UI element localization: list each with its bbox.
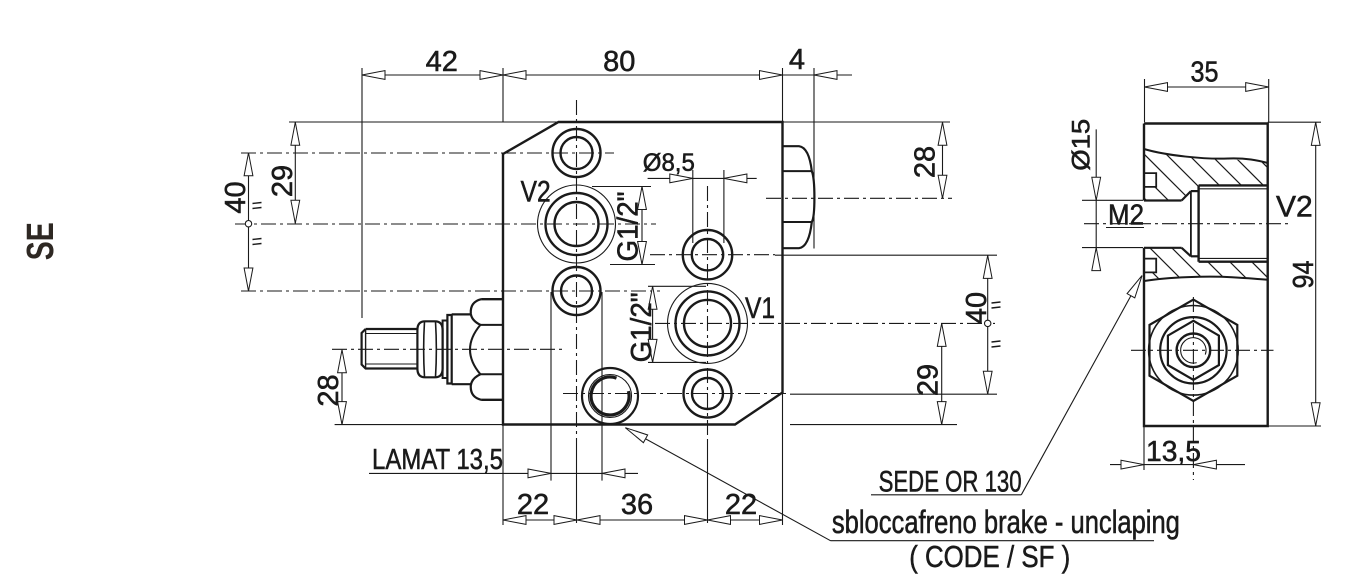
dim text 4: [789, 44, 805, 76]
bore centerline (y=223.7): [1084, 223, 1290, 225]
extension line x=782.5 bottom: [782, 393, 784, 526]
symmetry node circle right: [985, 320, 991, 326]
dim text 36: [621, 489, 653, 521]
dim text 40 left: [220, 181, 252, 213]
label D8,5: [643, 149, 695, 177]
side view block outline: [1144, 124, 1268, 427]
text sbloccafreno brake - unclaping: [832, 504, 1180, 540]
dim text 22 left: [517, 489, 549, 521]
label M2: [1106, 200, 1144, 232]
svg-text:29: 29: [913, 364, 945, 396]
svg-text:22: 22: [517, 489, 549, 521]
hex plug front view: [1149, 300, 1239, 401]
leader line to O-ring hole (sbloccafreno): [623, 424, 1154, 541]
dim 40 left arrows: [244, 153, 253, 291]
svg-text:42: 42: [426, 46, 458, 78]
label G1/2 V2: [613, 192, 645, 262]
arrows 35: [1145, 83, 1269, 92]
dim line 94: [1315, 122, 1317, 425]
dim text 40 right: [961, 292, 993, 324]
dim 28 right line: [942, 122, 944, 198]
G1/2 V2 arrows: [638, 187, 647, 265]
dim text 28 right: [910, 146, 942, 178]
dim text 80: [603, 46, 635, 78]
svg-text:28: 28: [910, 146, 942, 178]
thread section plug V2: [1199, 185, 1268, 261]
G1/2 V2 dim line: [641, 187, 643, 265]
centerline V1 column (x=707.5): [707, 186, 709, 523]
svg-text:LAMAT 13,5: LAMAT 13,5: [372, 444, 503, 476]
extension line x=503 bottom: [502, 425, 504, 525]
extension line block bottom extended right (y=424.6): [790, 424, 957, 426]
D8.5 extension lines: [693, 170, 724, 243]
spot-faced hole below V2 (c 576.5,291): [553, 267, 601, 315]
label D15: [1068, 119, 1096, 171]
hatching upper section: [980, 100, 1366, 310]
svg-text:V1: V1: [745, 292, 775, 325]
leader line SEDE OR 130: [871, 273, 1146, 494]
centerline bottom hole row (y=393.5): [563, 393, 997, 396]
arrows 13,5: [1121, 460, 1216, 469]
svg-text:M2: M2: [1108, 200, 1144, 232]
main block outline (front view): [503, 122, 783, 425]
equality marks left: [253, 203, 262, 245]
dim 28 right arrows: [938, 122, 947, 198]
text ( CODE / SF ): [909, 539, 1070, 574]
label G1/2 V1: [626, 292, 658, 362]
small hex of fitting: [417, 321, 442, 377]
drawing label SE: [20, 222, 62, 260]
svg-text:G1/2": G1/2": [626, 292, 658, 362]
svg-text:22: 22: [725, 489, 757, 521]
large hex of fitting (against block face): [452, 299, 503, 400]
svg-text:94: 94: [1288, 261, 1320, 289]
dim 29 right arrows: [937, 323, 946, 424]
dim 29 left line: [294, 122, 296, 223]
label V2 side view: [1276, 191, 1313, 224]
centerline V2 row (y=224): [235, 223, 656, 225]
D8.5 dim line: [648, 177, 757, 179]
dim text 29 left: [267, 165, 299, 197]
dim 40 right line: [987, 255, 989, 394]
extension lines D15: [1082, 200, 1143, 247]
dim 28 left line: [341, 350, 343, 425]
extension line x=814: [813, 68, 815, 249]
threaded stud (left fitting): [362, 329, 418, 369]
svg-text:40: 40: [220, 181, 252, 213]
extension line top right (y=122.2): [1268, 121, 1321, 123]
centerline top hole row (y=153): [241, 152, 614, 154]
extension line 13.5 left: [1143, 426, 1145, 470]
O-ring seat hole SEDE OR 130 (c 610,396): [582, 368, 638, 424]
hex plug centerline horizontal: [1131, 349, 1274, 351]
centerline fitting (y=349.3): [332, 348, 565, 350]
port V1 hole (c 707.5,323.4): [668, 283, 748, 363]
svg-text:4: 4: [789, 44, 805, 76]
bore neck shoulder: [1191, 191, 1199, 256]
svg-text:36: 36: [621, 489, 653, 521]
svg-text:SE: SE: [20, 222, 62, 260]
mounting hole bottom (c 707.5,393.5): [684, 370, 732, 418]
section break line upper: [1144, 149, 1268, 163]
svg-text:V2: V2: [1276, 191, 1313, 224]
svg-text:G1/2": G1/2": [613, 192, 645, 262]
dim text 28 left: [313, 374, 345, 406]
LAMAT dimension line y=473.4: [369, 472, 638, 474]
centerline V1 row (y=323.4): [655, 322, 995, 324]
extension lines 35 dim: [1145, 79, 1269, 122]
LAMAT arrows: [528, 469, 625, 478]
svg-text:sbloccafreno brake - unclaping: sbloccafreno brake - unclaping: [832, 504, 1180, 540]
equality marks right: [992, 302, 1001, 347]
label LAMAT 13,5: [372, 444, 503, 476]
svg-text:40: 40: [961, 292, 993, 324]
extension line block bottom extended left (y=424.6): [335, 424, 503, 426]
dim text 29 right: [913, 364, 945, 396]
extension line block top extended left (y=122): [289, 121, 559, 123]
mounting hole top (c 576.5,153): [553, 129, 601, 177]
arrowheads top dims: [362, 71, 837, 80]
extension line block top extended right (y=122): [783, 121, 951, 123]
label V1 main view: [745, 292, 775, 325]
svg-text:28: 28: [313, 374, 345, 406]
label V2 main view: [521, 176, 551, 209]
dim 40 left line: [248, 153, 250, 291]
G1/2 V1 arrows: [648, 286, 657, 362]
text SEDE OR 130: [879, 466, 1022, 499]
extension line x=782.5 top: [782, 68, 784, 122]
port V2 hole (c 576.5,224): [538, 185, 616, 263]
hex plug on right face (side view): [783, 146, 815, 248]
centerline hex plug row (y=198.3): [766, 197, 952, 199]
dimension line bottom y=520: [503, 519, 783, 521]
dimension line top y=75: [362, 74, 852, 76]
G1/2 V1 extension lines: [648, 286, 706, 362]
dim 28 left arrows: [338, 350, 347, 425]
centerline D8.5 row (y=254.7): [650, 254, 997, 257]
D8.5 arrows: [670, 174, 747, 183]
O-ring groove notch lower: [1144, 259, 1156, 273]
dim line D15: [1095, 129, 1097, 270]
dim 40 right arrows: [983, 255, 992, 394]
bore opening lines: [1144, 201, 1182, 248]
dim text 35: [1191, 57, 1219, 89]
extension line x=362 (stud tip): [361, 68, 363, 318]
O-ring groove notch upper: [1144, 173, 1156, 187]
svg-text:35: 35: [1191, 57, 1219, 89]
extension lines LAMAT: [551, 292, 602, 481]
washer collar of fitting: [443, 315, 452, 384]
svg-text:29: 29: [267, 165, 299, 197]
dim text 42: [426, 46, 458, 78]
G1/2 V1 dim line: [652, 286, 654, 362]
svg-text:( CODE / SF ): ( CODE / SF ): [909, 539, 1070, 574]
centerline V2 column (x=576.5): [576, 100, 578, 523]
bore cone transition: [1182, 191, 1191, 256]
hatching lower section: [980, 100, 1366, 310]
svg-text:80: 80: [603, 46, 635, 78]
extension line x=503 top: [502, 68, 504, 122]
svg-text:13,5: 13,5: [1146, 436, 1201, 468]
arrows 94: [1311, 122, 1320, 425]
section break line lower: [1144, 277, 1268, 281]
dim 29 left arrows: [291, 122, 300, 223]
dim 29 right line: [941, 323, 943, 424]
svg-text:Ø15: Ø15: [1068, 119, 1096, 171]
symmetry node circle left: [245, 221, 251, 227]
dim text 13,5: [1146, 436, 1201, 468]
centerline below-V2 row (y=291): [241, 290, 660, 292]
dim line 35: [1145, 86, 1269, 88]
G1/2 V2 extension lines: [592, 187, 655, 265]
dim text 94: [1288, 261, 1320, 289]
svg-text:Ø8,5: Ø8,5: [643, 149, 695, 177]
dim text 22 right: [725, 489, 757, 521]
hole D8.5 (c 707.5,254.7): [683, 230, 732, 279]
extension line bottom right (y=426): [1268, 425, 1321, 427]
svg-text:SEDE OR 130: SEDE OR 130: [879, 466, 1022, 499]
arrows D15: [1092, 177, 1101, 270]
svg-text:V2: V2: [521, 176, 551, 209]
dim line 13,5: [1110, 464, 1245, 466]
hex plug centerline vertical: [1192, 297, 1194, 480]
arrowheads bottom dims: [503, 516, 783, 525]
